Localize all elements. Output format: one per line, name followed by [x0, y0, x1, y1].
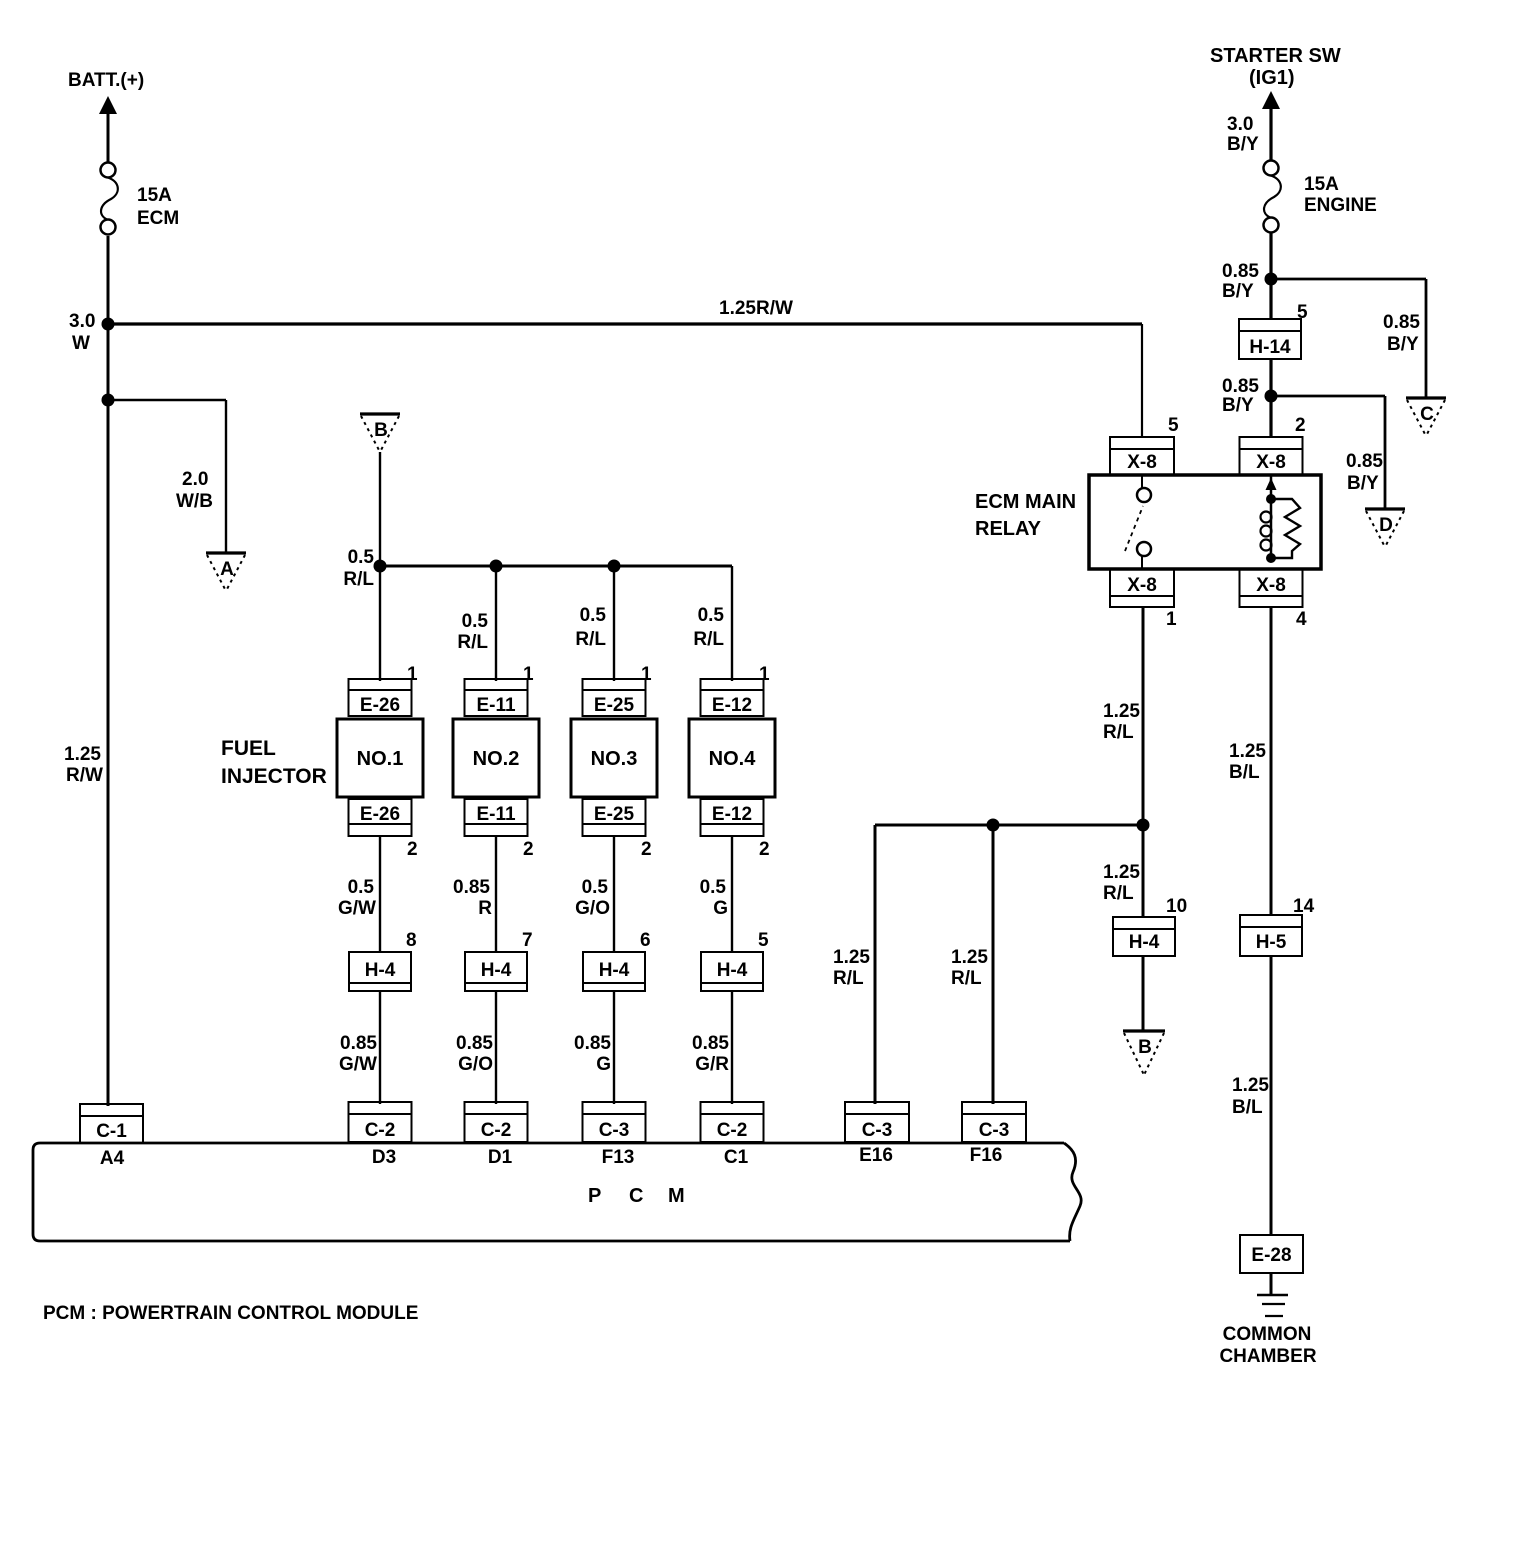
svg-text:B/L: B/L — [1232, 1097, 1263, 1118]
off-page connector A — [206, 551, 246, 554]
svg-text:C-2: C-2 — [481, 1120, 512, 1141]
svg-text:3.0: 3.0 — [69, 311, 95, 332]
svg-text:R/L: R/L — [575, 629, 606, 650]
svg-text:0.85: 0.85 — [453, 877, 490, 898]
svg-text:B/Y: B/Y — [1347, 473, 1379, 494]
wire injector NO.1 to joint connector H-4 — [379, 836, 381, 952]
svg-text:E-12: E-12 — [712, 804, 752, 825]
junction battery wire / W/B branch — [102, 394, 115, 407]
relay coil feed arrowhead — [1266, 478, 1277, 490]
svg-text:2: 2 — [759, 839, 770, 860]
svg-text:ENGINE: ENGINE — [1304, 195, 1377, 216]
wire branch down to PCM E16 — [874, 825, 877, 1104]
wire relay pin 4 down to H-5 pin 14 — [1270, 607, 1273, 915]
svg-text:C-3: C-3 — [862, 1120, 893, 1141]
svg-text:D1: D1 — [488, 1147, 513, 1168]
svg-text:10: 10 — [1166, 896, 1187, 917]
wire bus to injector NO.3 connector — [613, 566, 615, 681]
wire H-4 to PCM C-2 — [495, 991, 497, 1104]
connector X-8 (relay pin 2, top right) — [1240, 437, 1303, 475]
svg-text:NO.1: NO.1 — [357, 748, 404, 770]
relay resistor R (zigzag, parallel with coil) — [1271, 499, 1300, 558]
svg-text:E-11: E-11 — [476, 695, 516, 716]
fuel injector NO.3 — [571, 719, 657, 797]
svg-text:E-26: E-26 — [360, 695, 400, 716]
svg-text:2: 2 — [641, 839, 652, 860]
svg-text:1.25: 1.25 — [833, 947, 870, 968]
svg-text:R/L: R/L — [343, 569, 374, 590]
wire H-4 to PCM C-2 — [731, 991, 733, 1104]
connector E-26 (bottom) of injector NO.1 — [349, 799, 412, 836]
connector C-3 at PCM pin F13 — [583, 1102, 646, 1142]
svg-text:15A: 15A — [137, 185, 172, 206]
svg-text:1.25: 1.25 — [1232, 1075, 1269, 1096]
svg-text:R/L: R/L — [1103, 883, 1134, 904]
svg-text:D: D — [1379, 515, 1393, 536]
svg-text:X-8: X-8 — [1127, 575, 1157, 596]
svg-text:G/W: G/W — [339, 1054, 377, 1075]
svg-text:1.25: 1.25 — [1103, 862, 1140, 883]
svg-text:5: 5 — [758, 930, 769, 951]
joint connector H-14 — [1239, 319, 1301, 359]
svg-text:B/Y: B/Y — [1227, 134, 1259, 155]
svg-text:0.85: 0.85 — [1222, 376, 1259, 397]
fuse F2 15A ENGINE — [1264, 161, 1279, 176]
junction branch F16 — [987, 819, 1000, 832]
relay coil L (loops) — [1261, 512, 1272, 523]
joint connector H-4 pin 5 — [701, 952, 763, 991]
svg-text:ECM: ECM — [137, 208, 179, 229]
svg-text:H-5: H-5 — [1256, 932, 1287, 953]
module PCM box — [33, 1143, 1070, 1241]
off-page connector C — [1406, 396, 1446, 399]
svg-text:0.85: 0.85 — [1346, 451, 1383, 472]
junction battery wire / 1.25R/W bus — [102, 318, 115, 331]
svg-text:W: W — [72, 333, 90, 354]
svg-text:FUEL: FUEL — [221, 737, 276, 760]
svg-text:0.5: 0.5 — [700, 877, 727, 898]
joint connector H-4 pin 7 — [465, 952, 527, 991]
svg-text:15A: 15A — [1304, 174, 1339, 195]
connector C-2 at PCM pin D3 — [349, 1102, 412, 1142]
svg-text:PCM : POWERTRAIN CONTROL MODUL: PCM : POWERTRAIN CONTROL MODULE — [43, 1303, 418, 1324]
off-page connector D — [1365, 507, 1405, 510]
relay switch top contact — [1137, 488, 1151, 502]
svg-text:W/B: W/B — [176, 491, 213, 512]
connector X-8 (relay pin 1, bottom left) — [1110, 569, 1174, 607]
svg-text:R: R — [478, 898, 492, 919]
svg-text:C-3: C-3 — [599, 1120, 630, 1141]
svg-text:BATT.(+): BATT.(+) — [68, 70, 144, 91]
relay switch contact wire to pin1 — [1141, 556, 1143, 569]
svg-text:E16: E16 — [859, 1145, 893, 1166]
svg-text:H-14: H-14 — [1249, 337, 1291, 358]
svg-text:1: 1 — [1166, 609, 1177, 630]
wire relay pin1 branch horizontal to PCM E16/F16 — [875, 824, 1143, 827]
wire injector NO.4 to joint connector H-4 — [731, 836, 733, 952]
connector E-12 (top) of injector NO.4 — [701, 679, 764, 716]
svg-text:A: A — [220, 559, 234, 580]
svg-text:R/L: R/L — [833, 968, 864, 989]
svg-text:X-8: X-8 — [1256, 575, 1286, 596]
junction relay coil bottom — [1266, 553, 1276, 563]
wire bus to injector NO.4 connector — [731, 566, 733, 681]
svg-text:0.5: 0.5 — [462, 611, 489, 632]
svg-text:C-2: C-2 — [717, 1120, 748, 1141]
svg-text:H-4: H-4 — [365, 960, 396, 981]
svg-text:E-25: E-25 — [594, 804, 635, 825]
ground COMMON CHAMBER — [1257, 1294, 1288, 1297]
svg-text:0.85: 0.85 — [456, 1033, 493, 1054]
connector C-1 pin A4 — [80, 1104, 143, 1143]
svg-text:R/L: R/L — [457, 632, 488, 653]
svg-text:B/Y: B/Y — [1222, 395, 1254, 416]
svg-text:R/W: R/W — [66, 765, 103, 786]
svg-text:H-4: H-4 — [481, 960, 512, 981]
junction bus at injector NO.3 — [608, 560, 621, 573]
svg-text:NO.4: NO.4 — [709, 748, 757, 770]
svg-text:X-8: X-8 — [1127, 452, 1157, 473]
svg-text:3.0: 3.0 — [1227, 114, 1253, 135]
svg-text:7: 7 — [522, 930, 533, 951]
wire 1.25R/W horizontal to ECM main relay pin 5 — [108, 322, 1142, 325]
fuel injector NO.2 — [453, 719, 539, 797]
wire branch down to PCM F16 — [992, 825, 995, 1104]
svg-text:1.25R/W: 1.25R/W — [719, 298, 793, 319]
svg-text:2: 2 — [523, 839, 534, 860]
svg-text:2: 2 — [407, 839, 418, 860]
svg-text:A4: A4 — [100, 1148, 125, 1169]
svg-text:B/Y: B/Y — [1387, 334, 1419, 355]
svg-text:M: M — [668, 1185, 685, 1207]
svg-text:NO.2: NO.2 — [473, 748, 520, 770]
svg-text:1.25: 1.25 — [64, 744, 101, 765]
wire connector B to injector bus — [379, 452, 381, 566]
svg-text:C-1: C-1 — [96, 1121, 127, 1142]
relay switch contact wire from pin5 — [1141, 475, 1143, 488]
svg-text:0.85: 0.85 — [1222, 261, 1259, 282]
connector C-3 at PCM pin F16 — [962, 1102, 1026, 1142]
svg-text:0.85: 0.85 — [340, 1033, 377, 1054]
svg-text:F13: F13 — [602, 1147, 635, 1168]
svg-text:B/L: B/L — [1229, 762, 1260, 783]
connector C-3 at PCM pin E16 — [845, 1102, 909, 1142]
wire battery vertical 3.0 W / 1.25 R/W down to PCM C-1 — [107, 236, 110, 1106]
relay K1 ECM MAIN RELAY body — [1089, 475, 1321, 569]
wire branch to connector C — [1271, 278, 1426, 281]
wire branch to connector D — [1271, 395, 1385, 398]
joint connector H-4 pin 10 — [1113, 917, 1175, 956]
svg-text:D3: D3 — [372, 1147, 396, 1168]
wire battery arrow to fuse — [107, 113, 110, 163]
svg-text:P: P — [588, 1185, 601, 1207]
junction relay coil top — [1266, 494, 1276, 504]
fuse F1 15A ECM — [101, 163, 116, 178]
wire 1.25R/W down to relay X-8 pin 5 — [1141, 324, 1143, 437]
svg-text:H-4: H-4 — [1129, 932, 1160, 953]
svg-text:C-2: C-2 — [365, 1120, 396, 1141]
wire H-5 to E-28 — [1270, 956, 1273, 1235]
junction 0.85 B/Y branch D — [1265, 390, 1278, 403]
svg-text:R/L: R/L — [693, 629, 724, 650]
svg-text:0.5: 0.5 — [580, 605, 607, 626]
svg-text:G/O: G/O — [575, 898, 610, 919]
svg-text:X-8: X-8 — [1256, 452, 1286, 473]
wire injector NO.2 to joint connector H-4 — [495, 836, 497, 952]
svg-text:E-26: E-26 — [360, 804, 400, 825]
power arrow STARTER SW — [1262, 91, 1280, 109]
fuel injector NO.1 — [337, 719, 423, 797]
svg-text:C: C — [629, 1185, 643, 1207]
svg-text:G: G — [596, 1054, 611, 1075]
wire H-4 to PCM C-3 — [613, 991, 615, 1104]
svg-text:2: 2 — [1295, 415, 1306, 436]
connector E-12 (bottom) of injector NO.4 — [701, 799, 764, 836]
wire relay pin 1 down to H-4 pin 10 — [1142, 607, 1145, 917]
svg-text:NO.3: NO.3 — [591, 748, 638, 770]
wire injector NO.3 to joint connector H-4 — [613, 836, 615, 952]
svg-text:2.0: 2.0 — [182, 469, 208, 490]
svg-text:0.85: 0.85 — [1383, 312, 1420, 333]
svg-text:C1: C1 — [724, 1147, 749, 1168]
wire H-14 to relay X-8 pin 2 — [1269, 359, 1272, 437]
fuel injector NO.4 — [689, 719, 775, 797]
svg-text:H-4: H-4 — [599, 960, 630, 981]
svg-text:H-4: H-4 — [717, 960, 748, 981]
svg-text:B: B — [1138, 1037, 1152, 1058]
joint connector H-4 pin 8 — [349, 952, 411, 991]
svg-text:0.5: 0.5 — [582, 877, 609, 898]
wire bus to injector NO.2 connector — [495, 566, 497, 681]
wire starter arrow to fuse — [1269, 108, 1272, 161]
svg-text:G/O: G/O — [458, 1054, 493, 1075]
junction relay pin1 wire to E16/F16 branch — [1137, 819, 1150, 832]
svg-text:G/R: G/R — [695, 1054, 729, 1075]
svg-text:(IG1): (IG1) — [1249, 67, 1295, 89]
svg-text:0.5: 0.5 — [348, 877, 375, 898]
connector X-8 (relay pin 5, top left) — [1110, 437, 1174, 475]
off-page connector B (top) — [360, 412, 400, 415]
wire E-28 to ground — [1270, 1273, 1273, 1295]
svg-text:1.25: 1.25 — [951, 947, 988, 968]
svg-text:CHAMBER: CHAMBER — [1219, 1346, 1316, 1367]
svg-text:E-25: E-25 — [594, 695, 635, 716]
svg-text:STARTER SW: STARTER SW — [1210, 45, 1341, 67]
svg-text:R/L: R/L — [1103, 722, 1134, 743]
svg-text:RELAY: RELAY — [975, 518, 1042, 540]
svg-text:4: 4 — [1296, 609, 1307, 630]
svg-text:B/Y: B/Y — [1222, 281, 1254, 302]
connector C-2 at PCM pin C1 — [701, 1102, 764, 1142]
svg-text:E-11: E-11 — [476, 804, 516, 825]
connector X-8 (relay pin 4, bottom right) — [1240, 569, 1303, 607]
svg-text:14: 14 — [1293, 896, 1315, 917]
junction 0.85 B/Y branch C — [1265, 273, 1278, 286]
svg-text:C-3: C-3 — [979, 1120, 1010, 1141]
power arrow BATT.(+) — [99, 96, 117, 114]
off-page connector B (bottom) — [1123, 1029, 1165, 1032]
svg-text:0.85: 0.85 — [692, 1033, 729, 1054]
svg-text:8: 8 — [406, 930, 417, 951]
svg-text:1.25: 1.25 — [1103, 701, 1140, 722]
wire H-4 pin10 to connector B — [1142, 956, 1145, 1031]
svg-text:ECM MAIN: ECM MAIN — [975, 491, 1076, 513]
relay coil feed wire from pin2 — [1270, 475, 1273, 560]
wire fuse to H-14 — [1269, 232, 1272, 319]
relay switch blade (open, dashed) — [1125, 506, 1143, 551]
connector E-28 — [1240, 1235, 1303, 1273]
svg-text:F16: F16 — [970, 1145, 1003, 1166]
relay switch bottom contact — [1137, 542, 1151, 556]
junction bus at injector NO.2 — [490, 560, 503, 573]
svg-text:6: 6 — [640, 930, 651, 951]
svg-text:1.25: 1.25 — [1229, 741, 1266, 762]
connector C-2 at PCM pin D1 — [465, 1102, 528, 1142]
svg-text:E-28: E-28 — [1251, 1245, 1291, 1266]
connector E-26 (top) of injector NO.1 — [349, 679, 412, 716]
connector E-25 (bottom) of injector NO.3 — [583, 799, 646, 836]
connector E-25 (top) of injector NO.3 — [583, 679, 646, 716]
svg-text:B: B — [374, 420, 388, 441]
svg-text:R/L: R/L — [951, 968, 982, 989]
svg-text:COMMON: COMMON — [1223, 1324, 1312, 1345]
svg-text:E-12: E-12 — [712, 695, 752, 716]
connector E-11 (bottom) of injector NO.2 — [465, 799, 528, 836]
joint connector H-4 pin 6 — [583, 952, 645, 991]
svg-text:5: 5 — [1168, 415, 1179, 436]
wire injector supply bus 0.5 R/L — [380, 565, 732, 568]
svg-text:0.85: 0.85 — [574, 1033, 611, 1054]
wire bus to injector NO.1 connector — [379, 566, 381, 681]
svg-text:INJECTOR: INJECTOR — [221, 765, 327, 788]
svg-text:G/W: G/W — [338, 898, 376, 919]
svg-text:0.5: 0.5 — [348, 547, 375, 568]
svg-text:C: C — [1420, 404, 1434, 425]
connector E-11 (top) of injector NO.2 — [465, 679, 528, 716]
wire H-4 to PCM C-2 — [379, 991, 381, 1104]
svg-text:G: G — [713, 898, 728, 919]
junction bus at injector NO.1 — [374, 560, 387, 573]
joint connector H-5 pin 14 — [1240, 915, 1302, 956]
svg-text:0.5: 0.5 — [698, 605, 725, 626]
wire 2.0 W/B branch to connector A — [108, 399, 226, 401]
